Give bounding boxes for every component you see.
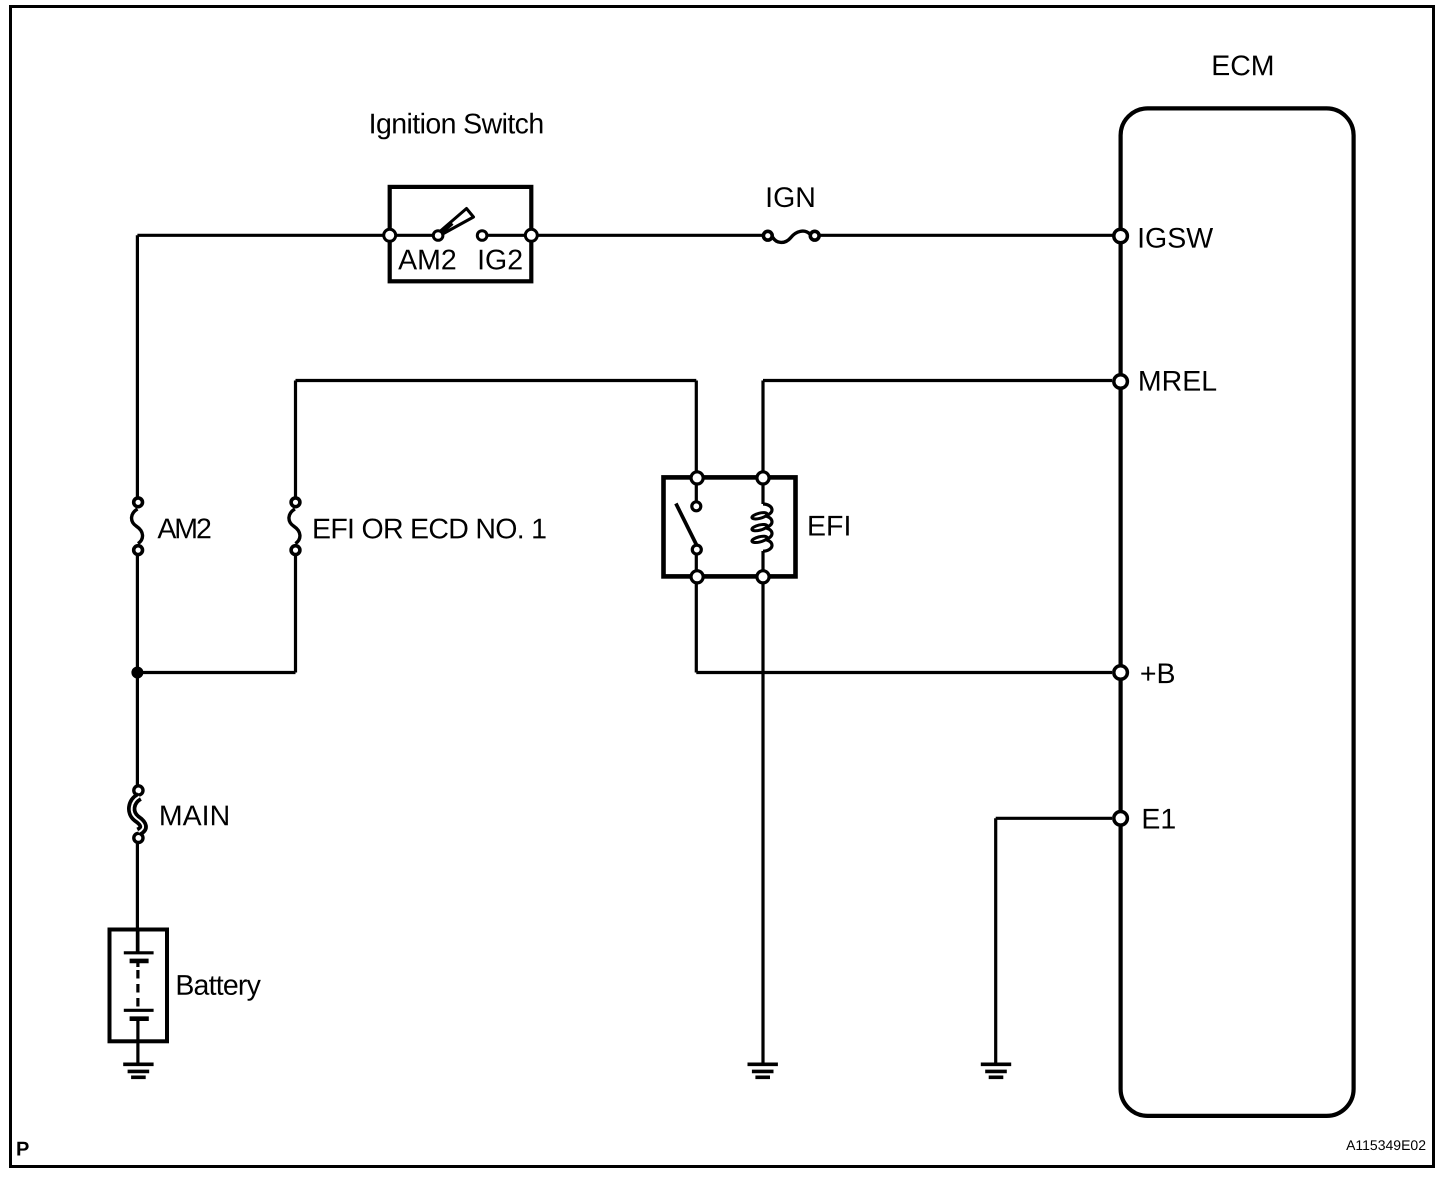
- svg-text:Battery: Battery: [175, 970, 261, 1002]
- svg-text:+B: +B: [1140, 658, 1176, 690]
- svg-text:EFI OR ECD NO. 1: EFI OR ECD NO. 1: [312, 513, 547, 545]
- svg-text:IGSW: IGSW: [1137, 223, 1213, 255]
- svg-text:ECM: ECM: [1211, 50, 1274, 82]
- svg-text:P: P: [16, 1139, 29, 1161]
- svg-text:A115349E02: A115349E02: [1346, 1137, 1426, 1153]
- svg-text:IG2: IG2: [477, 244, 523, 276]
- svg-text:IGN: IGN: [765, 182, 816, 214]
- svg-text:MREL: MREL: [1138, 366, 1217, 398]
- svg-text:AM2: AM2: [157, 513, 212, 545]
- svg-text:EFI: EFI: [807, 511, 851, 543]
- svg-text:E1: E1: [1141, 803, 1176, 835]
- svg-text:Ignition Switch: Ignition Switch: [369, 108, 545, 140]
- svg-text:AM2: AM2: [398, 244, 457, 276]
- svg-text:MAIN: MAIN: [159, 800, 230, 832]
